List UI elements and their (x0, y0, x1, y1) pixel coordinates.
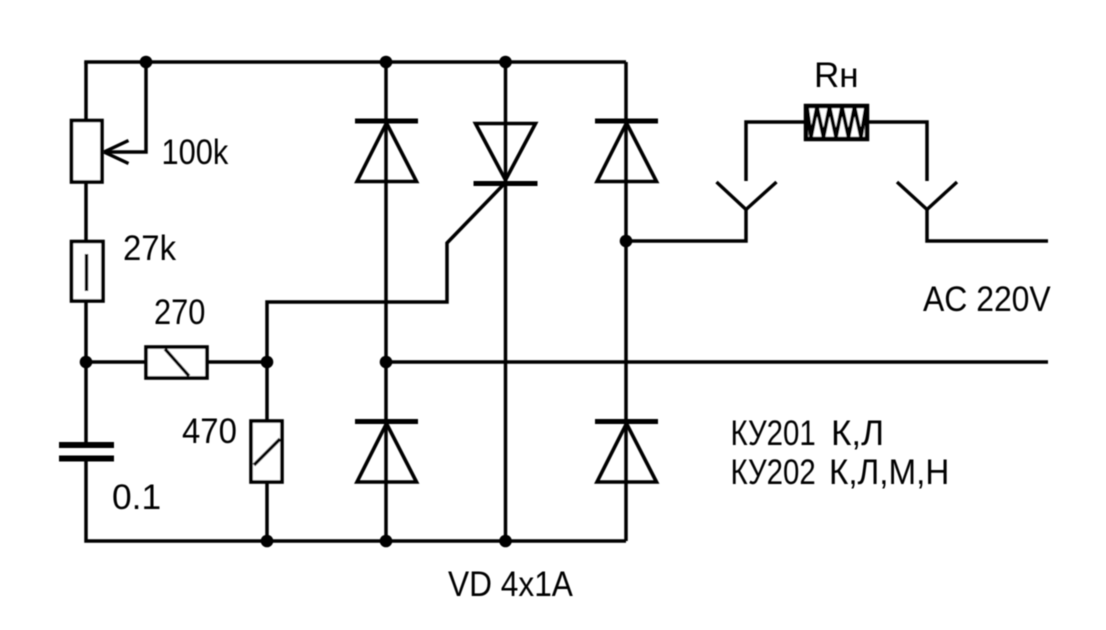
potentiometer R1 100k body (72, 121, 103, 183)
wire pot to 27k (84, 181, 88, 243)
svg-text:AC 220V: AC 220V (923, 281, 1051, 320)
potentiometer R1 wiper arrow (104, 141, 129, 164)
resistor R2 power mark (85, 254, 88, 291)
svg-text:270: 270 (154, 292, 205, 331)
svg-text:К,Л: К,Л (831, 414, 884, 453)
svg-text:VD 4x1A: VD 4x1A (448, 566, 574, 605)
junction node bottom VS1 (499, 535, 512, 548)
wire gate net (267, 183, 506, 363)
label AC 220V (923, 281, 1051, 320)
capacitor C1 plates (59, 445, 114, 459)
svg-text:К,Л,М,Н: К,Л,М,Н (829, 453, 949, 492)
svg-text:Rн: Rн (814, 56, 859, 95)
wire node A to capacitor (84, 362, 88, 443)
label VD 4x1A (448, 566, 574, 605)
wire node C to plug X1 (626, 209, 746, 241)
junction node AC bridge (380, 356, 393, 369)
wire 470 to bottom bus (265, 482, 269, 541)
wire plug X2 to AC terminal (927, 209, 1048, 241)
label 0.1 (112, 478, 161, 517)
svg-text:КУ201: КУ201 (731, 414, 816, 453)
resistor R3 270 body (146, 347, 207, 378)
load resistor Rn body (806, 106, 867, 139)
svg-text:0.1: 0.1 (112, 478, 161, 517)
wire bridge column VD2 (624, 62, 628, 541)
label 470 (182, 412, 237, 451)
resistor R4 slash (254, 439, 280, 465)
load resistor Rn zigzag (807, 107, 866, 137)
wire AC line lower (386, 360, 1048, 364)
svg-text:КУ202: КУ202 (731, 453, 816, 492)
label Rn (814, 56, 859, 95)
label KU202 (731, 453, 816, 492)
wire wiper from top bus (105, 62, 146, 152)
svg-text:27k: 27k (123, 229, 177, 268)
resistor R4 470 body (251, 421, 282, 482)
wire thyristor column (504, 62, 508, 541)
thyristor VS1 body (474, 124, 538, 184)
label KU201 suffix (831, 414, 884, 453)
diode VD2 (upper right) (595, 121, 658, 182)
junction node bottom 470 (261, 535, 274, 548)
diode VD3 (lower left) (355, 422, 418, 483)
label 100k (162, 132, 229, 171)
wire plug X1 pin to Rn (746, 122, 806, 181)
label KU201 (731, 414, 816, 453)
wire 270 to node B (207, 360, 267, 364)
wire node B to 470 (265, 362, 269, 422)
label 27k (123, 229, 177, 268)
svg-text:100k: 100k (162, 132, 229, 171)
wire top bus (86, 62, 626, 64)
wire capacitor to bottom bus (86, 460, 626, 541)
wire left rail upper (84, 62, 88, 122)
junction node top-left (140, 56, 153, 69)
wire node A to 270 (86, 360, 146, 364)
resistor R2 27k body (72, 242, 104, 302)
plug X2 fork (897, 182, 957, 210)
wire Rn to plug X2 pin (867, 122, 927, 181)
junction node A (80, 356, 93, 369)
diode VD4 (lower right) (595, 422, 658, 483)
label KU202 suffix (829, 453, 949, 492)
junction node top VD1 (380, 56, 393, 69)
junction node top VS1 (499, 56, 512, 69)
plug X1 fork (717, 182, 777, 210)
svg-text:470: 470 (182, 412, 237, 451)
label 270 (154, 292, 205, 331)
resistor R3 slash (165, 349, 189, 376)
wire bridge column VD1 (384, 62, 388, 541)
diode VD1 (upper left) (355, 121, 418, 182)
wire 27k to node A (84, 300, 88, 362)
junction node B (261, 356, 274, 369)
junction node C (620, 235, 633, 248)
junction node bottom VD3 (380, 535, 393, 548)
